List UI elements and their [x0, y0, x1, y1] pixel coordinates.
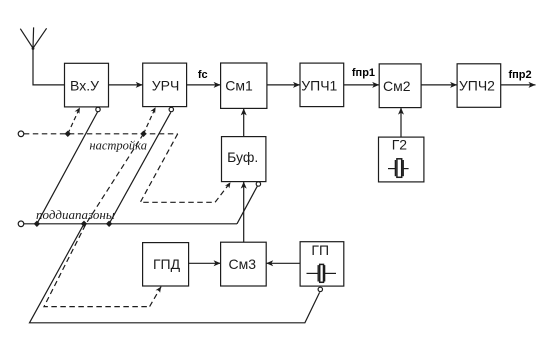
svg-text:УПЧ2: УПЧ2 [459, 77, 495, 93]
wire ГПД to См3 [189, 260, 221, 266]
block Г2 [379, 136, 424, 182]
svg-text:fс: fс [198, 69, 208, 81]
block См2 [379, 64, 421, 108]
wire поддиапазоны to Вх.У circle [37, 112, 98, 224]
svg-text:УПЧ1: УПЧ1 [301, 77, 337, 93]
junction dot поддиапазоны 2 [81, 221, 87, 227]
block ГП [300, 242, 344, 286]
wire См3 to Буф [241, 182, 247, 243]
node circle поддиапазоны line start [18, 221, 24, 227]
circle at Вх.У bottom [96, 107, 100, 111]
dashed arrow настройка to УРЧ [144, 107, 156, 134]
svg-text:Г2: Г2 [392, 136, 408, 152]
block Буф [222, 137, 266, 182]
wire настройка dashed path to Буф [140, 134, 230, 203]
wire настройка dashed horizontal [24, 133, 178, 135]
antenna [20, 27, 64, 85]
junction dot поддиапазоны 3 [106, 221, 112, 227]
svg-text:См2: См2 [383, 78, 411, 94]
circle at Буф bottom [256, 182, 260, 186]
svg-text:См1: См1 [225, 78, 253, 94]
wire поддиапазоны horizontal [24, 223, 237, 225]
svg-text:УРЧ: УРЧ [152, 77, 180, 93]
block УПЧ1 [300, 63, 344, 107]
block См3 [221, 242, 267, 286]
block Вх.У [65, 63, 109, 107]
svg-text:Буф.: Буф. [227, 149, 258, 165]
wire Вх.У to УРЧ [109, 82, 143, 88]
svg-text:настройка: настройка [89, 138, 147, 152]
wire УРЧ to См1 [187, 82, 221, 88]
wire поддиапазоны diagonal to Буф circle [237, 186, 258, 224]
wire ГП to См3 [266, 260, 300, 266]
junction dot настройка УРЧ [140, 131, 146, 137]
wire См2 to УПЧ2 [421, 82, 457, 88]
svg-text:См3: См3 [229, 256, 257, 272]
svg-text:fпр2: fпр2 [509, 69, 532, 81]
crystal symbol in ГП [307, 264, 337, 282]
wire Г2 to См2 [398, 108, 404, 138]
wire См1 to УПЧ1 [267, 82, 300, 88]
junction dot настройка Вх.У [65, 131, 71, 137]
wire Буф to См1 [241, 108, 247, 136]
output wire fnp2 [501, 82, 536, 88]
block УРЧ [143, 63, 187, 107]
crystal symbol in Г2 [388, 159, 409, 178]
dashed arrow настройка to Вх.У [68, 108, 80, 134]
circle at УРЧ bottom [169, 107, 173, 111]
block УПЧ2 [457, 64, 501, 108]
block См1 [221, 63, 267, 108]
svg-text:Вх.У: Вх.У [70, 77, 99, 93]
block ГПД [143, 243, 189, 286]
wire настройка dashed path to ГПД [44, 134, 161, 307]
wire поддиапазоны down-left to bottom rail [30, 224, 320, 323]
junction dot поддиапазоны 1 [34, 221, 40, 227]
wire УПЧ1 to См2 [344, 82, 380, 88]
node circle настройка line start [18, 131, 24, 137]
svg-text:ГП: ГП [311, 242, 329, 258]
circle at ГП bottom [318, 287, 322, 291]
svg-text:поддиапазоны: поддиапазоны [36, 207, 115, 222]
svg-text:fпр1: fпр1 [352, 67, 375, 79]
wire поддиапазоны to УРЧ circle [109, 112, 171, 224]
svg-text:ГПД: ГПД [153, 256, 181, 272]
